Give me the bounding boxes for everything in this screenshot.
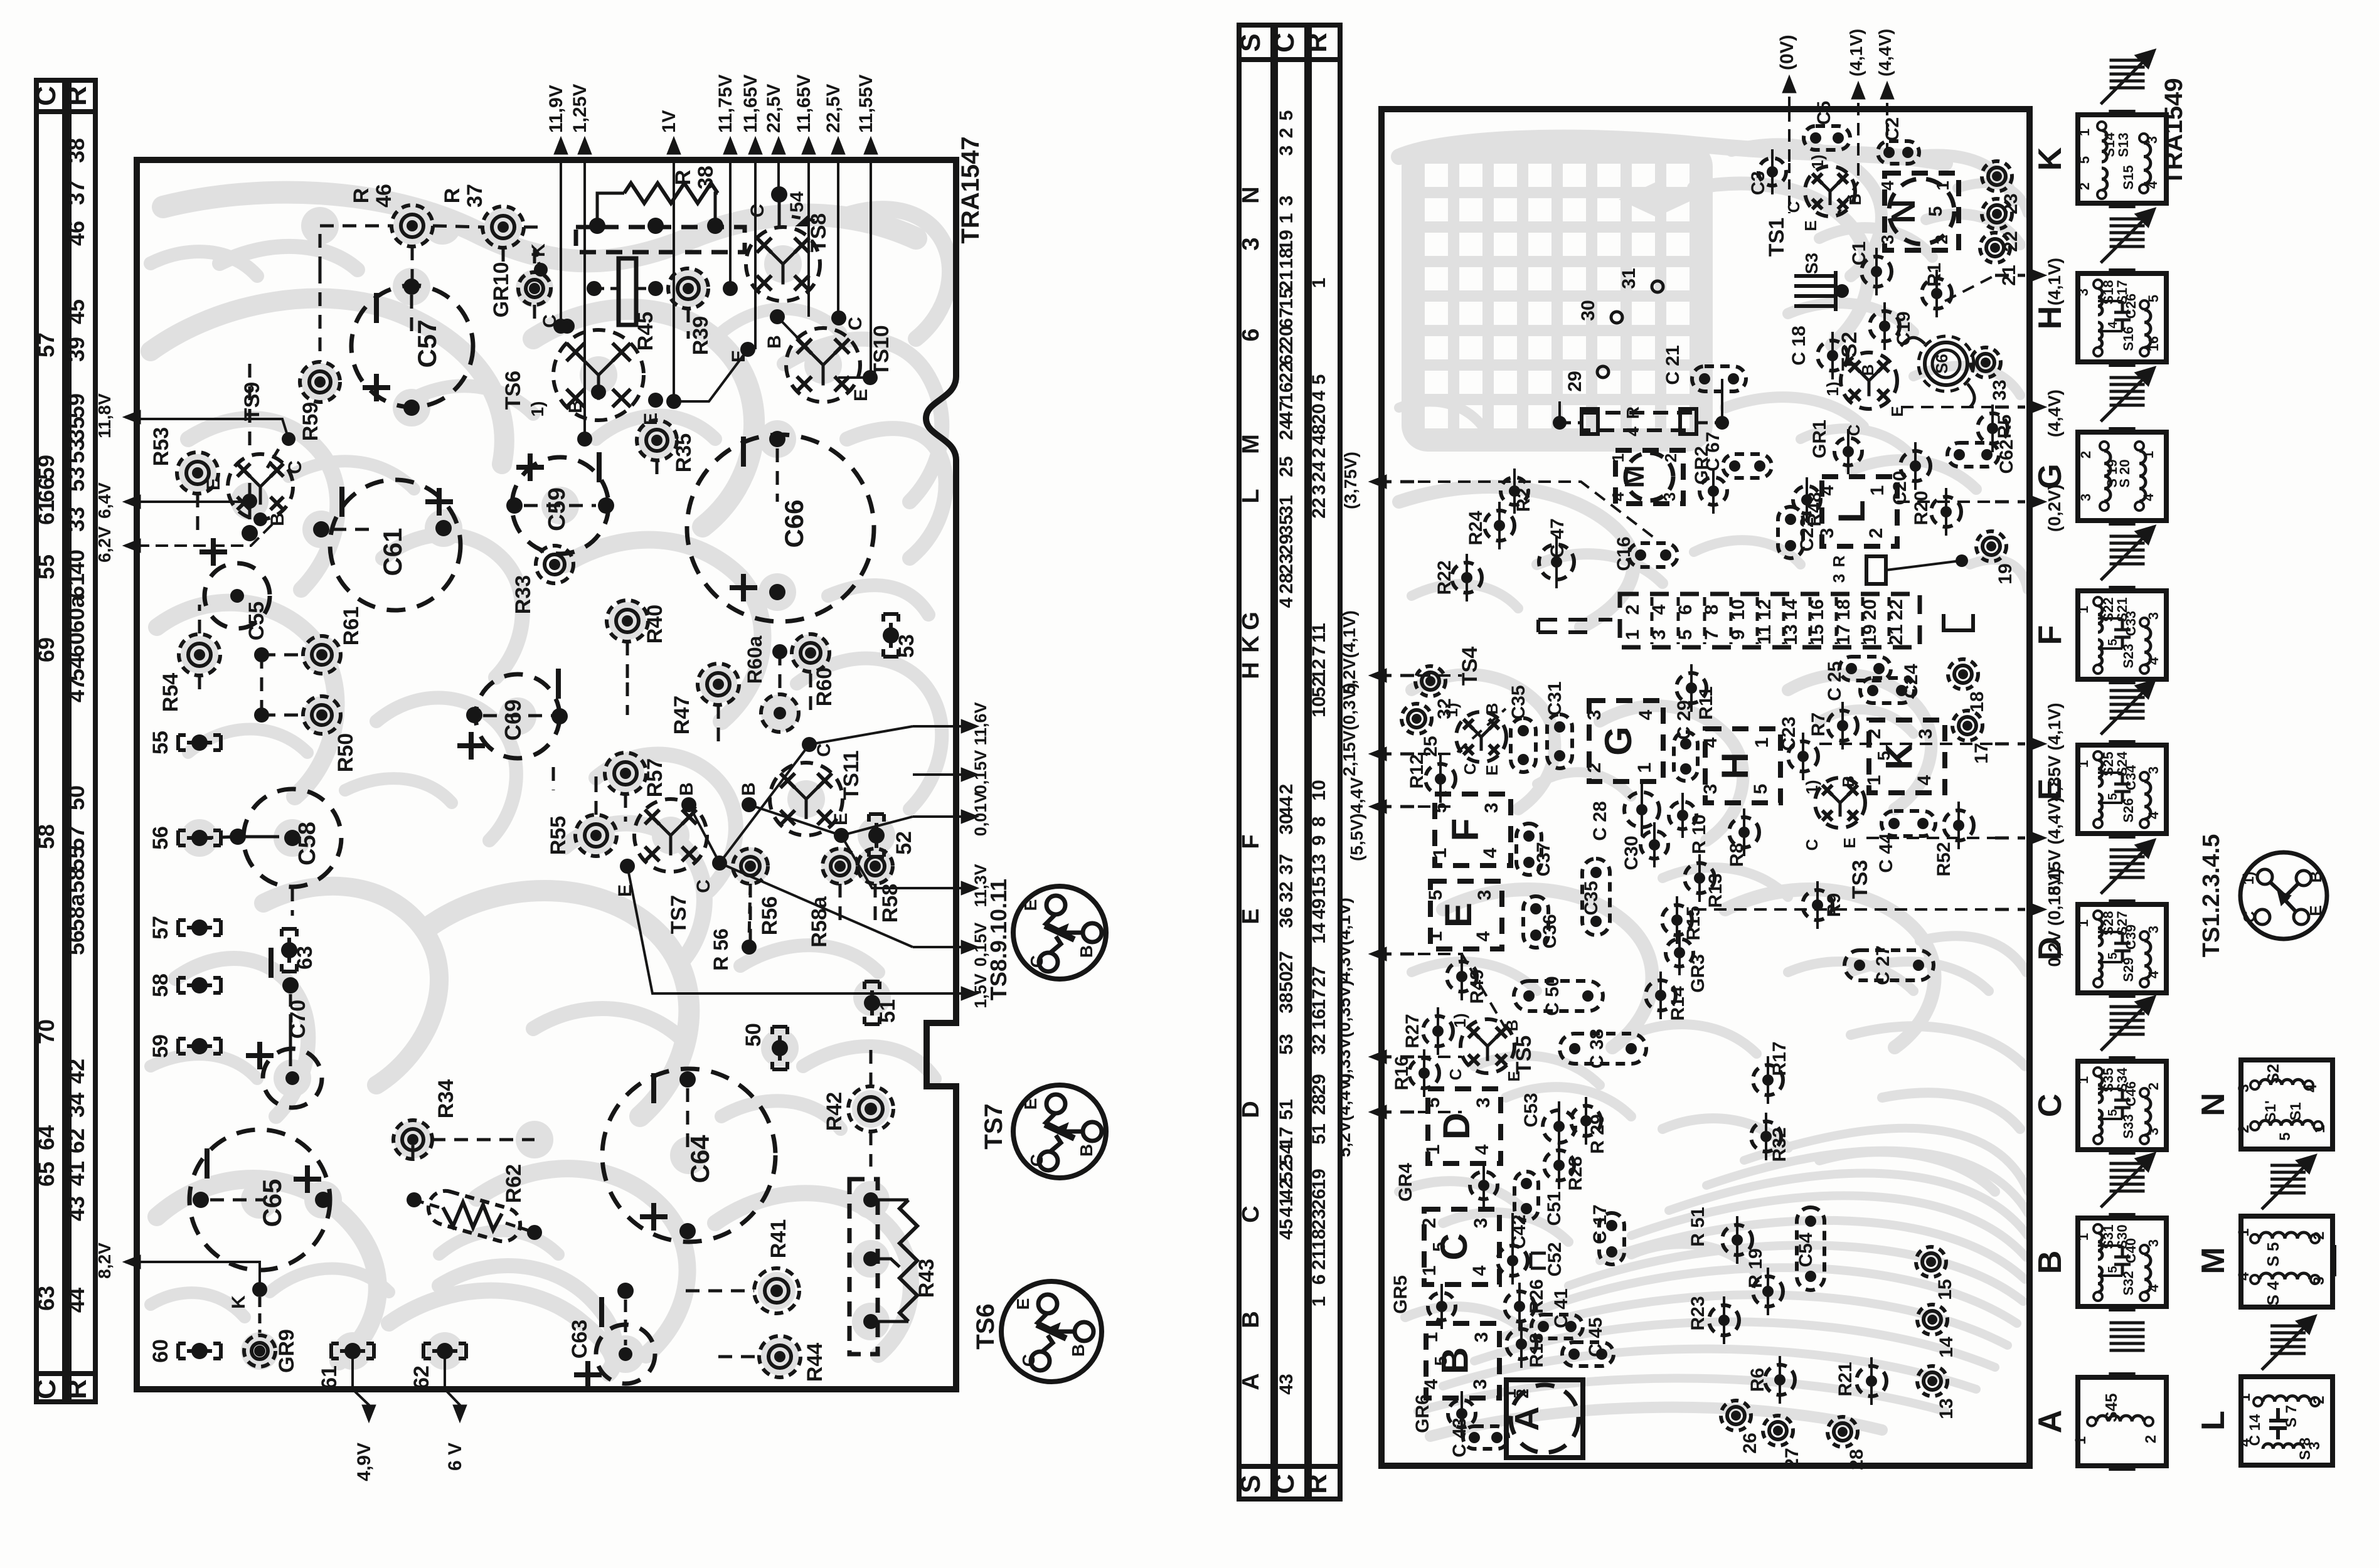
svg-text:2: 2 <box>1864 729 1885 739</box>
svg-text:TS1.2.3.4.5: TS1.2.3.4.5 <box>2198 834 2225 957</box>
svg-text:R: R <box>671 170 695 186</box>
capacitor C62 <box>1947 443 1999 467</box>
capacitor C63 <box>596 1325 655 1384</box>
diode GR4 <box>1470 1172 1498 1199</box>
svg-text:C: C <box>1784 201 1803 213</box>
svg-text:C31: C31 <box>1545 681 1565 716</box>
svg-text:S 20: S 20 <box>2117 459 2132 487</box>
capacitor C45 <box>1562 1342 1614 1366</box>
resistor R17 <box>1753 1065 1783 1095</box>
svg-text:G: G <box>1597 726 1639 756</box>
svg-text:3: 3 <box>1878 235 1897 245</box>
wire <box>260 655 263 715</box>
svg-text:C: C <box>814 743 834 757</box>
capacitor C19 <box>1870 311 1900 341</box>
svg-text:C: C <box>747 204 768 218</box>
copper traces (left board) <box>151 193 950 1375</box>
svg-text:17: 17 <box>1309 988 1329 1009</box>
svg-text:4: 4 <box>1609 492 1627 501</box>
svg-text:1): 1) <box>1823 381 1842 396</box>
svg-text:E: E <box>1021 899 1040 911</box>
svg-text:S1': S1' <box>2262 1100 2279 1122</box>
svg-text:C: C <box>1027 1154 1046 1167</box>
svg-text:1: 1 <box>2075 1233 2091 1241</box>
wire <box>1513 476 1516 506</box>
svg-text:E: E <box>641 413 661 425</box>
svg-text:G: G <box>1238 612 1264 630</box>
svg-text:R43: R43 <box>915 1259 939 1298</box>
adjust mark <box>2110 1322 2145 1325</box>
wire <box>749 884 752 947</box>
svg-text:D: D <box>1435 1113 1477 1140</box>
resistor R35 <box>637 420 677 460</box>
svg-text:38: 38 <box>694 166 718 189</box>
transistor TS11 <box>770 763 843 835</box>
resistor R18 <box>1506 1329 1536 1359</box>
terminal 59 <box>191 1038 208 1054</box>
svg-text:5: 5 <box>2277 1132 2294 1140</box>
filter block G <box>1589 701 1663 781</box>
wire <box>1676 905 1678 935</box>
svg-text:47: 47 <box>63 677 89 702</box>
svg-text:20: 20 <box>1276 326 1297 346</box>
resistor R52 <box>1944 810 1974 840</box>
terminal 53 <box>883 627 899 644</box>
svg-text:11,65V: 11,65V <box>740 75 761 133</box>
svg-text:3: 3 <box>2235 1084 2252 1092</box>
terminal 58 <box>191 977 208 993</box>
test-point arrow (5,5V)4,4V <box>1373 805 1376 808</box>
svg-text:C2: C2 <box>1882 117 1903 141</box>
svg-text:28: 28 <box>1309 1094 1329 1115</box>
svg-text:66: 66 <box>33 477 59 502</box>
svg-text:24: 24 <box>1276 419 1297 440</box>
resistor R41 <box>754 1268 799 1313</box>
svg-text:0,15V: 0,15V <box>971 750 990 795</box>
wire L to (0,2V) <box>1897 501 1995 503</box>
capacitor C66 <box>687 435 874 622</box>
svg-text:28: 28 <box>1846 1449 1867 1470</box>
diode GR10 <box>518 272 551 305</box>
IF transformer K <box>2078 115 2166 203</box>
svg-text:GR5: GR5 <box>1390 1275 1411 1314</box>
svg-text:S29: S29 <box>2121 957 2136 982</box>
svg-text:C 50: C 50 <box>1542 976 1563 1015</box>
svg-text:S13: S13 <box>2116 132 2131 157</box>
test-point arrow (4,1V) <box>1857 87 1860 89</box>
svg-text:B: B <box>1858 364 1877 376</box>
svg-text:22,5V: 22,5V <box>764 84 784 133</box>
svg-text:23: 23 <box>1276 553 1297 574</box>
resistor R54 <box>179 634 220 675</box>
capacitor C59 <box>512 457 609 554</box>
resistor R12 <box>1425 764 1456 794</box>
svg-text:A: A <box>2032 1410 2068 1434</box>
svg-text:27: 27 <box>1276 951 1297 972</box>
wire R1 to (4,1V) <box>1945 275 1995 301</box>
svg-text:2: 2 <box>1309 448 1329 458</box>
terminal 19 <box>1976 531 2006 561</box>
svg-text:67: 67 <box>1276 307 1297 328</box>
svg-text:46: 46 <box>63 221 89 246</box>
svg-text:27: 27 <box>1309 966 1329 987</box>
capacitor C36 <box>1523 896 1548 948</box>
svg-text:C: C <box>31 86 61 106</box>
svg-text:R41: R41 <box>767 1219 790 1258</box>
terminal 63 <box>281 942 297 958</box>
connector strip C (left) <box>36 80 65 1402</box>
svg-text:C 21: C 21 <box>1663 345 1683 384</box>
wire <box>248 483 252 521</box>
svg-text:S26: S26 <box>2121 798 2136 822</box>
test-point arrow 0,01V <box>913 815 969 818</box>
svg-text:31: 31 <box>1619 268 1639 289</box>
wire <box>291 887 294 916</box>
resistor R55 <box>575 815 617 856</box>
svg-text:E: E <box>1013 1298 1033 1310</box>
svg-text:13: 13 <box>1309 854 1329 874</box>
svg-text:10: 10 <box>1309 780 1329 800</box>
svg-text:R24: R24 <box>1466 511 1486 545</box>
wire <box>1991 413 1994 443</box>
svg-text:33: 33 <box>63 507 89 532</box>
terminal 33 <box>1971 347 2001 378</box>
resistor R61 <box>303 636 341 674</box>
svg-text:1: 1 <box>1430 848 1450 859</box>
svg-text:53: 53 <box>895 634 918 658</box>
test-point arrow 5,15V (4,4V) <box>2039 837 2043 840</box>
test-point arrow 6V <box>444 1351 446 1389</box>
resistor R58 <box>858 849 893 884</box>
svg-text:R16: R16 <box>1392 1056 1412 1090</box>
svg-text:5: 5 <box>1276 110 1297 121</box>
svg-text:R 56: R 56 <box>710 928 732 971</box>
svg-text:C: C <box>845 317 866 331</box>
svg-text:R47: R47 <box>670 696 694 734</box>
svg-text:15: 15 <box>1935 1279 1956 1300</box>
test-point arrow 11,65V <box>807 143 811 144</box>
svg-text:TS4: TS4 <box>1458 647 1482 686</box>
resistor R28 <box>1544 1150 1574 1180</box>
test-point arrow 22,5V <box>837 143 840 144</box>
filter block A <box>1506 1380 1583 1458</box>
transistor TS2 <box>1841 352 1897 409</box>
svg-text:R12: R12 <box>1407 754 1427 788</box>
svg-text:3: 3 <box>1471 1218 1491 1229</box>
svg-text:5: 5 <box>2106 1109 2120 1116</box>
terminal 32 <box>1415 666 1445 696</box>
wire <box>1439 764 1442 794</box>
svg-text:S 5: S 5 <box>2264 1242 2282 1266</box>
svg-text:S: S <box>1235 1475 1266 1493</box>
svg-text:3: 3 <box>1471 1332 1492 1343</box>
svg-text:43: 43 <box>63 1196 89 1221</box>
svg-text:41: 41 <box>1276 1196 1297 1217</box>
transistor TS1 <box>1805 166 1855 216</box>
svg-text:C54: C54 <box>1796 1232 1816 1267</box>
adjust mark <box>2110 535 2145 538</box>
capacitor C21 <box>1692 366 1746 391</box>
svg-text:2: 2 <box>2311 1396 2328 1404</box>
wire <box>1721 379 1723 401</box>
svg-text:R: R <box>349 188 373 204</box>
svg-text:63: 63 <box>293 946 317 970</box>
svg-text:4: 4 <box>2146 1284 2161 1292</box>
svg-text:(0,2V): (0,2V) <box>2045 484 2064 532</box>
svg-text:C63: C63 <box>568 1320 592 1359</box>
svg-text:C20: C20 <box>1890 470 1910 505</box>
svg-text:R35: R35 <box>672 433 696 472</box>
svg-text:19: 19 <box>1276 230 1297 250</box>
wire <box>656 460 659 483</box>
svg-text:TS8.9.10.11: TS8.9.10.11 <box>986 879 1011 1000</box>
svg-text:TS3: TS3 <box>1848 860 1872 899</box>
svg-text:30: 30 <box>1276 813 1297 834</box>
svg-text:3: 3 <box>2311 1276 2328 1285</box>
svg-text:47: 47 <box>1276 401 1297 421</box>
pinout legend TS1.2.3.4.5 <box>2240 852 2327 939</box>
wire TS9 collector dash <box>267 449 279 468</box>
svg-text:E: E <box>2306 905 2325 916</box>
wire <box>1498 511 1501 541</box>
wire <box>1914 451 1917 481</box>
svg-text:5,2V(4,1V): 5,2V(4,1V) <box>1339 610 1359 694</box>
svg-text:R62: R62 <box>502 1164 526 1203</box>
svg-text:35: 35 <box>1276 514 1297 535</box>
svg-text:E: E <box>1437 903 1479 928</box>
connector strip C (right) <box>1275 25 1307 1499</box>
svg-text:K: K <box>1238 635 1264 653</box>
svg-text:59: 59 <box>149 1034 173 1058</box>
svg-text:6: 6 <box>1238 328 1264 341</box>
resistor R42 <box>848 1086 893 1131</box>
svg-text:R58: R58 <box>878 884 902 923</box>
IF transformer C <box>2078 1061 2166 1150</box>
svg-text:K: K <box>228 1295 249 1309</box>
svg-text:9: 9 <box>1309 835 1329 846</box>
connector strip R (right) <box>1309 25 1340 1499</box>
svg-text:R: R <box>1623 406 1642 419</box>
svg-text:61: 61 <box>63 573 89 598</box>
svg-text:45: 45 <box>63 299 89 324</box>
filter block E <box>1430 881 1502 949</box>
filter block K <box>1869 720 1945 793</box>
svg-text:C 41: C 41 <box>1551 1288 1572 1328</box>
svg-text:4: 4 <box>2106 321 2120 329</box>
adjust mark <box>2110 689 2145 692</box>
svg-text:C35: C35 <box>1508 685 1529 719</box>
svg-text:C62: C62 <box>1996 439 2017 474</box>
wire <box>1883 311 1886 341</box>
svg-text:30: 30 <box>1578 300 1599 320</box>
svg-text:1: 1 <box>2235 1228 2252 1236</box>
svg-text:A: A <box>1508 1407 1546 1431</box>
svg-text:4: 4 <box>1309 390 1329 401</box>
wire <box>1482 1170 1485 1200</box>
svg-text:C22: C22 <box>1797 517 1818 551</box>
resistor R4 <box>1582 413 1696 430</box>
svg-text:R54: R54 <box>159 673 183 712</box>
svg-text:C16: C16 <box>1614 536 1634 571</box>
svg-text:L: L <box>1831 500 1873 523</box>
capacitor C50 <box>1514 981 1603 1011</box>
capacitor C17 <box>1599 1213 1624 1264</box>
svg-text:3: 3 <box>2146 612 2161 620</box>
svg-text:B: B <box>565 400 586 413</box>
svg-text:1: 1 <box>1309 278 1329 289</box>
svg-text:E: E <box>851 389 871 401</box>
diode GR3 <box>1666 939 1693 967</box>
resistor R10 <box>1669 802 1696 829</box>
svg-text:11,75V: 11,75V <box>715 75 736 133</box>
wire <box>1767 1276 1769 1306</box>
svg-text:4: 4 <box>1878 181 1897 191</box>
svg-text:11,55V: 11,55V <box>856 75 876 133</box>
wire <box>200 837 238 838</box>
wire <box>319 270 322 362</box>
svg-text:R: R <box>1829 555 1848 567</box>
svg-text:S 4: S 4 <box>2264 1281 2282 1306</box>
filter block M <box>1615 450 1683 504</box>
svg-text:4: 4 <box>1914 775 1935 785</box>
svg-text:8,2V: 8,2V <box>95 1242 114 1279</box>
capacitor C58 <box>243 789 341 887</box>
svg-text:22,5V: 22,5V <box>823 84 844 133</box>
svg-text:TS7: TS7 <box>980 1103 1008 1149</box>
svg-text:B: B <box>1077 1144 1096 1157</box>
capacitor C70 <box>263 1049 322 1108</box>
svg-text:59: 59 <box>33 455 59 480</box>
transistor TS10 <box>786 328 860 402</box>
svg-text:1: 1 <box>1309 1296 1329 1307</box>
svg-text:58a: 58a <box>63 893 89 931</box>
svg-text:0,33V(0,35V): 0,33V(0,35V) <box>1334 980 1354 1084</box>
svg-text:E: E <box>203 478 224 490</box>
resistor R58a <box>822 849 858 884</box>
svg-text:C: C <box>1461 763 1479 775</box>
svg-text:C35: C35 <box>1581 881 1602 915</box>
svg-text:34: 34 <box>63 1093 89 1118</box>
svg-text:S16: S16 <box>2121 326 2136 351</box>
resistor R62 <box>424 1187 524 1245</box>
resistor R40 <box>607 600 648 642</box>
svg-text:21: 21 <box>1276 270 1297 290</box>
resistor R3 <box>1866 556 1886 584</box>
capacitor C38 <box>1560 1034 1646 1064</box>
capacitor C25 <box>1839 657 1891 681</box>
svg-text:TS11: TS11 <box>839 750 863 800</box>
svg-text:C39: C39 <box>2123 924 2139 950</box>
svg-text:43: 43 <box>1276 1374 1297 1394</box>
svg-text:C30: C30 <box>1621 835 1642 870</box>
wire <box>874 884 877 926</box>
svg-text:1): 1) <box>528 401 547 417</box>
wire <box>1690 673 1693 703</box>
capacitor C1 <box>1861 257 1892 287</box>
svg-text:C: C <box>693 879 714 893</box>
svg-text:C: C <box>31 1379 61 1399</box>
svg-text:3: 3 <box>1584 710 1605 721</box>
capacitor C53 <box>1543 1110 1575 1143</box>
svg-text:64: 64 <box>33 1125 59 1150</box>
svg-text:1): 1) <box>1802 780 1821 794</box>
test-point arrow 0,15V <box>913 946 969 948</box>
capacitor C23 <box>1788 741 1818 771</box>
svg-text:(3,75V): (3,75V) <box>1341 452 1360 509</box>
resistor R51 <box>1722 1225 1752 1255</box>
svg-text:57: 57 <box>149 916 173 940</box>
svg-text:1: 1 <box>1609 453 1627 462</box>
svg-text:R55: R55 <box>546 816 570 855</box>
svg-text:3: 3 <box>2144 136 2160 144</box>
capacitor C31 <box>1547 714 1572 768</box>
svg-text:1: 1 <box>2311 1125 2328 1133</box>
wire <box>1466 563 1468 593</box>
capacitor C3 <box>1759 158 1786 186</box>
svg-text:38: 38 <box>1276 992 1297 1013</box>
svg-text:24: 24 <box>1309 461 1329 482</box>
wire TS7/TS11 network <box>689 805 913 947</box>
svg-text:C: C <box>1269 33 1300 53</box>
svg-text:1: 1 <box>1634 763 1655 773</box>
svg-text:K: K <box>528 243 549 257</box>
svg-text:N: N <box>2195 1093 2232 1116</box>
wire TS3 to 5,15V <box>1866 837 1995 839</box>
svg-text:C66: C66 <box>779 499 809 548</box>
svg-text:1: 1 <box>2077 129 2092 136</box>
capacitor C29 <box>1674 732 1698 781</box>
svg-text:(4,1V): (4,1V) <box>1846 29 1866 77</box>
svg-text:16: 16 <box>2146 336 2161 351</box>
svg-text:R27: R27 <box>1402 1014 1423 1048</box>
svg-text:11,9V: 11,9V <box>546 85 567 133</box>
svg-text:C3: C3 <box>1748 171 1769 195</box>
resistor R44 <box>759 1336 801 1377</box>
resistor R32 <box>1751 1121 1781 1152</box>
resistor R56 <box>733 849 768 884</box>
svg-text:4: 4 <box>1480 847 1501 858</box>
svg-text:15: 15 <box>1309 876 1329 897</box>
test-point arrow 6,4V <box>125 501 137 504</box>
svg-text:F: F <box>2032 625 2068 645</box>
svg-text:R32: R32 <box>1769 1127 1790 1162</box>
wire <box>1585 1106 1587 1136</box>
wire <box>839 884 842 924</box>
svg-text:4,3V(4,1V): 4,3V(4,1V) <box>1334 898 1354 982</box>
svg-text:C23: C23 <box>1779 716 1799 751</box>
test-point arrow 4,3V(4,1V) <box>1373 953 1376 956</box>
wire <box>262 714 303 717</box>
resistor R57 <box>605 753 646 794</box>
wire <box>1935 278 1938 309</box>
svg-text:GR10: GR10 <box>489 262 513 318</box>
svg-text:R7: R7 <box>1808 712 1829 736</box>
svg-text:3: 3 <box>1473 1098 1494 1108</box>
svg-text:17: 17 <box>1971 743 1992 763</box>
wire K block to 4,85V <box>1819 743 1995 745</box>
svg-text:50: 50 <box>1276 971 1297 992</box>
svg-text:52: 52 <box>892 831 916 855</box>
svg-text:S1: S1 <box>2287 1102 2304 1120</box>
svg-text:S15: S15 <box>2121 165 2136 189</box>
svg-text:5: 5 <box>2106 952 2120 959</box>
terminal 26 <box>1721 1401 1751 1431</box>
svg-text:3: 3 <box>1474 890 1495 901</box>
capacitor C67 <box>1723 454 1772 478</box>
IF transformer B <box>2078 1218 2166 1306</box>
svg-text:R5: R5 <box>1994 415 2015 438</box>
test-point arrow 6,2V <box>125 544 137 548</box>
